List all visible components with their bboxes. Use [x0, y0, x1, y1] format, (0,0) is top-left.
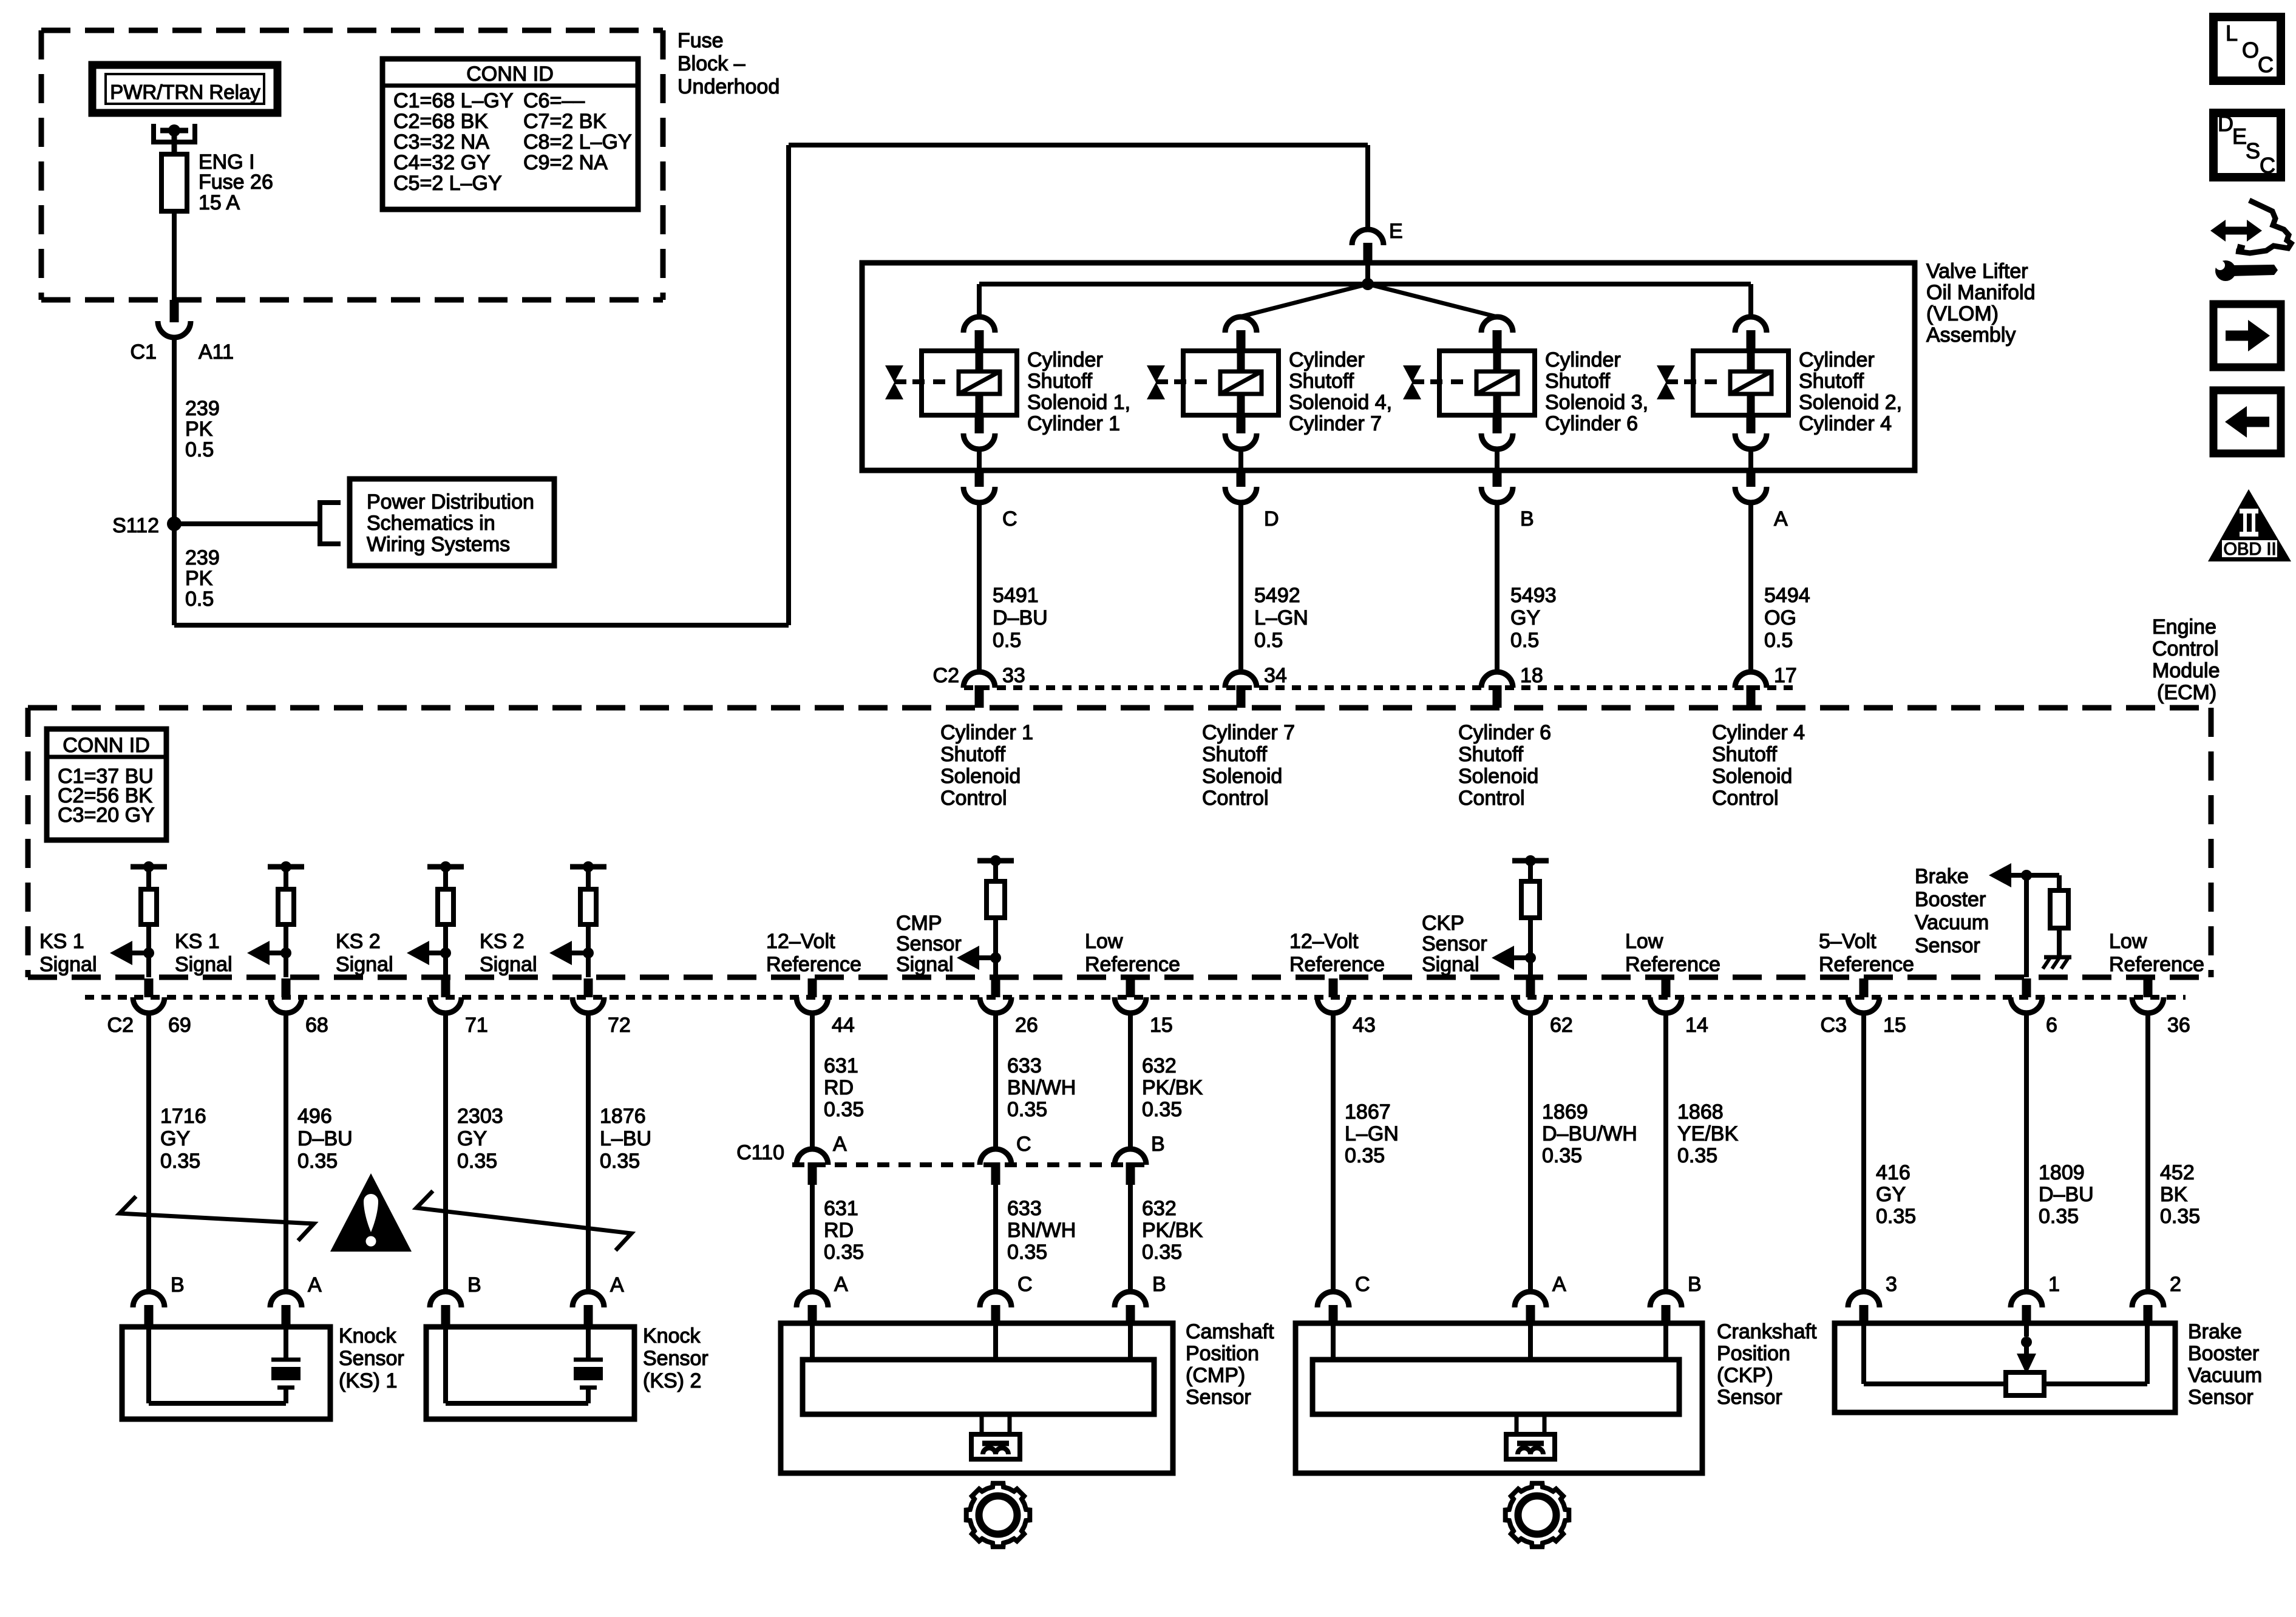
svg-text:Shutoff: Shutoff — [1202, 743, 1268, 766]
svg-text:1: 1 — [2048, 1273, 2060, 1296]
svg-text:633: 633 — [1007, 1197, 1042, 1220]
svg-text:Shutoff: Shutoff — [940, 743, 1006, 766]
svg-text:Sensor: Sensor — [896, 932, 962, 955]
svg-text:632: 632 — [1142, 1054, 1177, 1077]
svg-text:0.5: 0.5 — [185, 588, 214, 611]
svg-text:S: S — [2246, 138, 2260, 163]
svg-text:C2: C2 — [107, 1014, 134, 1037]
svg-text:Low: Low — [1625, 930, 1663, 953]
svg-text:14: 14 — [1685, 1014, 1708, 1037]
svg-text:12–Volt: 12–Volt — [766, 930, 835, 953]
svg-text:C: C — [2260, 153, 2275, 178]
svg-text:A: A — [308, 1273, 322, 1297]
svg-text:Signal: Signal — [896, 953, 954, 976]
svg-text:0.5: 0.5 — [1764, 629, 1793, 652]
svg-text:Shutoff: Shutoff — [1458, 743, 1524, 766]
svg-text:2303: 2303 — [457, 1105, 503, 1128]
svg-text:Brake: Brake — [1915, 865, 1969, 888]
svg-text:(VLOM): (VLOM) — [1926, 302, 1999, 325]
svg-text:Signal: Signal — [480, 953, 537, 976]
svg-text:Cylinder: Cylinder — [1545, 348, 1621, 371]
svg-text:GY: GY — [1876, 1183, 1906, 1206]
svg-text:Sensor: Sensor — [1717, 1386, 1782, 1409]
svg-text:0.5: 0.5 — [1254, 629, 1283, 652]
svg-text:GY: GY — [1510, 606, 1540, 629]
svg-text:34: 34 — [1264, 664, 1287, 687]
svg-text:C9=2 NA: C9=2 NA — [523, 151, 608, 174]
svg-text:Sensor: Sensor — [1915, 934, 1980, 957]
svg-text:C1: C1 — [131, 341, 157, 364]
svg-text:Cylinder 4: Cylinder 4 — [1712, 721, 1805, 744]
svg-text:Cylinder 1: Cylinder 1 — [940, 721, 1033, 744]
svg-text:0.35: 0.35 — [457, 1150, 497, 1173]
svg-text:Sensor: Sensor — [1186, 1386, 1251, 1409]
svg-text:Cylinder 7: Cylinder 7 — [1289, 412, 1382, 435]
svg-text:Solenoid 2,: Solenoid 2, — [1799, 391, 1902, 414]
svg-text:(KS) 2: (KS) 2 — [643, 1369, 701, 1392]
svg-text:Solenoid: Solenoid — [1712, 765, 1792, 788]
svg-text:PK/BK: PK/BK — [1142, 1076, 1203, 1099]
svg-text:0.35: 0.35 — [160, 1150, 200, 1173]
svg-text:17: 17 — [1774, 664, 1797, 687]
svg-text:C3=20 GY: C3=20 GY — [58, 804, 155, 827]
svg-text:631: 631 — [824, 1197, 858, 1220]
svg-text:Sensor: Sensor — [1422, 932, 1487, 955]
svg-text:C7=2 BK: C7=2 BK — [523, 110, 606, 133]
svg-text:Knock: Knock — [339, 1324, 396, 1347]
svg-text:Shutoff: Shutoff — [1027, 370, 1093, 393]
svg-text:Signal: Signal — [175, 953, 233, 976]
svg-text:BN/WH: BN/WH — [1007, 1219, 1076, 1242]
svg-text:E: E — [1389, 220, 1403, 243]
svg-text:BK: BK — [2160, 1183, 2188, 1206]
svg-text:Block –: Block – — [678, 52, 746, 75]
svg-text:D–BU: D–BU — [297, 1127, 353, 1150]
svg-text:C1=68 L–GY: C1=68 L–GY — [393, 89, 514, 112]
svg-text:5–Volt: 5–Volt — [1819, 930, 1877, 953]
svg-text:Fuse: Fuse — [678, 29, 724, 52]
svg-text:B: B — [171, 1273, 185, 1297]
svg-text:0.35: 0.35 — [1677, 1144, 1717, 1167]
svg-text:Solenoid 3,: Solenoid 3, — [1545, 391, 1648, 414]
svg-text:Reference: Reference — [2109, 953, 2204, 976]
svg-text:Solenoid 4,: Solenoid 4, — [1289, 391, 1392, 414]
svg-text:B: B — [1520, 507, 1534, 531]
svg-text:15: 15 — [1883, 1014, 1906, 1037]
svg-text:Assembly: Assembly — [1926, 324, 2016, 347]
svg-text:633: 633 — [1007, 1054, 1042, 1077]
svg-text:C3=32 NA: C3=32 NA — [393, 131, 489, 154]
svg-text:0.35: 0.35 — [1007, 1098, 1047, 1121]
svg-text:Shutoff: Shutoff — [1289, 370, 1354, 393]
svg-text:Solenoid: Solenoid — [1202, 765, 1282, 788]
svg-text:Sensor: Sensor — [643, 1347, 708, 1370]
svg-text:5493: 5493 — [1510, 584, 1557, 607]
svg-text:1867: 1867 — [1345, 1100, 1391, 1124]
svg-text:Signal: Signal — [1422, 953, 1479, 976]
svg-text:1868: 1868 — [1677, 1100, 1724, 1124]
svg-text:15 A: 15 A — [199, 191, 240, 214]
svg-text:Cylinder 4: Cylinder 4 — [1799, 412, 1892, 435]
svg-text:33: 33 — [1002, 664, 1025, 687]
svg-text:Reference: Reference — [766, 953, 861, 976]
svg-text:Shutoff: Shutoff — [1545, 370, 1611, 393]
svg-text:Power Distribution: Power Distribution — [367, 490, 534, 514]
svg-text:26: 26 — [1015, 1014, 1038, 1037]
svg-text:Wiring Systems: Wiring Systems — [367, 533, 510, 556]
svg-text:A: A — [1774, 507, 1788, 531]
svg-text:(CMP): (CMP) — [1186, 1364, 1245, 1387]
svg-text:C8=2 L–GY: C8=2 L–GY — [523, 131, 632, 154]
svg-text:Shutoff: Shutoff — [1799, 370, 1864, 393]
svg-text:0.35: 0.35 — [1007, 1241, 1047, 1264]
svg-text:D–BU: D–BU — [2039, 1183, 2094, 1206]
svg-text:C: C — [1355, 1273, 1370, 1296]
svg-text:Vacuum: Vacuum — [2188, 1364, 2262, 1387]
svg-text:L–BU: L–BU — [600, 1127, 651, 1150]
svg-text:Schematics in: Schematics in — [367, 512, 495, 535]
svg-text:631: 631 — [824, 1054, 858, 1077]
svg-text:OBD II: OBD II — [2223, 540, 2276, 559]
svg-text:GY: GY — [160, 1127, 190, 1150]
svg-text:Position: Position — [1186, 1342, 1259, 1365]
svg-text:CKP: CKP — [1422, 912, 1464, 935]
svg-text:B: B — [467, 1273, 481, 1297]
svg-text:44: 44 — [832, 1014, 855, 1037]
svg-text:GY: GY — [457, 1127, 487, 1150]
svg-text:0.35: 0.35 — [1142, 1098, 1182, 1121]
svg-text:Fuse 26: Fuse 26 — [199, 171, 273, 194]
svg-text:C: C — [1016, 1133, 1031, 1156]
svg-text:Vacuum: Vacuum — [1915, 911, 1989, 934]
svg-text:KS 1: KS 1 — [39, 930, 84, 953]
svg-text:Cylinder 1: Cylinder 1 — [1027, 412, 1120, 435]
svg-text:(CKP): (CKP) — [1717, 1364, 1773, 1387]
svg-text:Solenoid 1,: Solenoid 1, — [1027, 391, 1130, 414]
svg-text:PK/BK: PK/BK — [1142, 1219, 1203, 1242]
svg-text:B: B — [1152, 1273, 1166, 1296]
svg-text:Module: Module — [2152, 659, 2220, 682]
svg-text:Control: Control — [1712, 787, 1779, 810]
svg-text:C110: C110 — [736, 1141, 784, 1164]
svg-text:Booster: Booster — [2188, 1342, 2259, 1365]
svg-text:72: 72 — [608, 1014, 631, 1037]
svg-text:A: A — [834, 1273, 848, 1296]
svg-text:C: C — [1017, 1273, 1033, 1296]
svg-text:RD: RD — [824, 1076, 854, 1099]
svg-text:Position: Position — [1717, 1342, 1790, 1365]
svg-text:C2: C2 — [933, 664, 959, 687]
svg-text:D–BU/WH: D–BU/WH — [1542, 1122, 1637, 1145]
svg-text:Engine: Engine — [2152, 615, 2216, 639]
svg-text:O: O — [2242, 38, 2259, 63]
svg-text:KS 2: KS 2 — [336, 930, 381, 953]
svg-text:43: 43 — [1353, 1014, 1376, 1037]
svg-text:C: C — [1002, 507, 1017, 531]
svg-text:PK: PK — [185, 567, 213, 590]
svg-text:Cylinder: Cylinder — [1027, 348, 1103, 371]
svg-text:PK: PK — [185, 418, 213, 441]
svg-text:KS 2: KS 2 — [480, 930, 525, 953]
svg-text:0.35: 0.35 — [1142, 1241, 1182, 1264]
svg-text:OG: OG — [1764, 606, 1796, 629]
svg-text:RD: RD — [824, 1219, 854, 1242]
svg-text:PWR/TRN Relay: PWR/TRN Relay — [110, 81, 260, 103]
svg-text:C4=32 GY: C4=32 GY — [393, 151, 491, 174]
svg-text:Solenoid: Solenoid — [1458, 765, 1538, 788]
svg-text:Low: Low — [2109, 930, 2147, 953]
svg-text:36: 36 — [2167, 1014, 2190, 1037]
svg-text:Booster: Booster — [1915, 888, 1986, 911]
svg-text:Shutoff: Shutoff — [1712, 743, 1778, 766]
svg-text:239: 239 — [185, 546, 220, 569]
svg-text:239: 239 — [185, 397, 220, 420]
svg-text:5494: 5494 — [1764, 584, 1810, 607]
svg-text:Brake: Brake — [2188, 1320, 2242, 1343]
svg-text:(ECM): (ECM) — [2157, 681, 2216, 704]
svg-text:Cylinder 6: Cylinder 6 — [1545, 412, 1638, 435]
svg-text:C3: C3 — [1821, 1014, 1847, 1037]
svg-text:A: A — [1552, 1273, 1566, 1296]
svg-text:Cylinder: Cylinder — [1799, 348, 1875, 371]
svg-text:0.35: 0.35 — [2160, 1205, 2200, 1228]
svg-text:69: 69 — [168, 1014, 191, 1037]
svg-text:C5=2 L–GY: C5=2 L–GY — [393, 172, 502, 195]
svg-text:6: 6 — [2046, 1014, 2057, 1037]
svg-text:Reference: Reference — [1625, 953, 1720, 976]
svg-text:B: B — [1688, 1273, 1702, 1296]
svg-text:416: 416 — [1876, 1161, 1911, 1184]
svg-text:Control: Control — [940, 787, 1007, 810]
svg-text:632: 632 — [1142, 1197, 1177, 1220]
svg-text:A: A — [610, 1273, 624, 1297]
svg-text:CONN ID: CONN ID — [466, 63, 554, 86]
svg-text:Valve Lifter: Valve Lifter — [1926, 260, 2028, 283]
svg-text:0.5: 0.5 — [993, 629, 1021, 652]
svg-text:A11: A11 — [199, 341, 234, 364]
svg-text:15: 15 — [1150, 1014, 1173, 1037]
svg-text:BN/WH: BN/WH — [1007, 1076, 1076, 1099]
svg-text:Control: Control — [1458, 787, 1525, 810]
svg-text:YE/BK: YE/BK — [1677, 1122, 1738, 1145]
svg-text:(KS) 1: (KS) 1 — [339, 1369, 397, 1392]
svg-text:Cylinder: Cylinder — [1289, 348, 1365, 371]
svg-text:0.5: 0.5 — [1510, 629, 1539, 652]
svg-text:Signal: Signal — [39, 953, 97, 976]
svg-text:0.35: 0.35 — [1345, 1144, 1385, 1167]
svg-text:496: 496 — [297, 1105, 332, 1128]
svg-text:CMP: CMP — [896, 912, 942, 935]
svg-text:Knock: Knock — [643, 1324, 701, 1347]
svg-text:Camshaft: Camshaft — [1186, 1320, 1274, 1343]
svg-text:0.35: 0.35 — [824, 1098, 864, 1121]
svg-text:Crankshaft: Crankshaft — [1717, 1320, 1817, 1343]
svg-text:68: 68 — [305, 1014, 328, 1037]
svg-text:71: 71 — [465, 1014, 488, 1037]
svg-text:Cylinder 7: Cylinder 7 — [1202, 721, 1295, 744]
svg-text:0.35: 0.35 — [297, 1150, 338, 1173]
svg-text:1809: 1809 — [2039, 1161, 2085, 1184]
svg-text:0.35: 0.35 — [600, 1150, 640, 1173]
svg-text:Oil Manifold: Oil Manifold — [1926, 281, 2036, 304]
svg-text:L: L — [2226, 21, 2238, 46]
svg-text:CONN ID: CONN ID — [63, 734, 150, 757]
svg-text:0.5: 0.5 — [185, 438, 214, 461]
svg-text:D: D — [1264, 507, 1279, 531]
svg-text:0.35: 0.35 — [2039, 1205, 2079, 1228]
svg-text:2: 2 — [2170, 1273, 2181, 1296]
svg-text:S112: S112 — [112, 514, 159, 537]
svg-text:Reference: Reference — [1819, 953, 1914, 976]
svg-text:62: 62 — [1550, 1014, 1573, 1037]
svg-text:Solenoid: Solenoid — [940, 765, 1021, 788]
svg-text:E: E — [2232, 124, 2247, 149]
svg-text:1876: 1876 — [600, 1105, 646, 1128]
svg-text:Sensor: Sensor — [339, 1347, 404, 1370]
svg-text:3: 3 — [1886, 1273, 1897, 1296]
svg-text:5491: 5491 — [993, 584, 1039, 607]
svg-text:D–BU: D–BU — [993, 606, 1048, 629]
svg-text:1716: 1716 — [160, 1105, 206, 1128]
svg-text:Sensor: Sensor — [2188, 1386, 2254, 1409]
svg-text:D: D — [2218, 111, 2233, 136]
svg-text:1869: 1869 — [1542, 1100, 1588, 1124]
svg-text:C2=68 BK: C2=68 BK — [393, 110, 488, 133]
svg-text:12–Volt: 12–Volt — [1289, 930, 1359, 953]
svg-text:0.35: 0.35 — [824, 1241, 864, 1264]
svg-text:A: A — [833, 1133, 847, 1156]
svg-text:Reference: Reference — [1289, 953, 1385, 976]
svg-text:KS 1: KS 1 — [175, 930, 220, 953]
svg-text:Reference: Reference — [1085, 953, 1180, 976]
svg-text:Cylinder 6: Cylinder 6 — [1458, 721, 1551, 744]
svg-text:Underhood: Underhood — [678, 75, 779, 98]
svg-text:5492: 5492 — [1254, 584, 1300, 607]
svg-text:B: B — [1151, 1133, 1165, 1156]
svg-text:C6=––: C6=–– — [523, 89, 585, 112]
svg-text:Control: Control — [1202, 787, 1269, 810]
svg-text:18: 18 — [1520, 664, 1543, 687]
svg-text:C: C — [2258, 52, 2274, 77]
svg-text:L–GN: L–GN — [1254, 606, 1308, 629]
svg-text:0.35: 0.35 — [1542, 1144, 1582, 1167]
svg-text:0.35: 0.35 — [1876, 1205, 1916, 1228]
svg-text:Low: Low — [1085, 930, 1123, 953]
svg-text:Signal: Signal — [336, 953, 393, 976]
svg-text:452: 452 — [2160, 1161, 2195, 1184]
svg-text:L–GN: L–GN — [1345, 1122, 1399, 1145]
svg-text:Control: Control — [2152, 637, 2219, 660]
